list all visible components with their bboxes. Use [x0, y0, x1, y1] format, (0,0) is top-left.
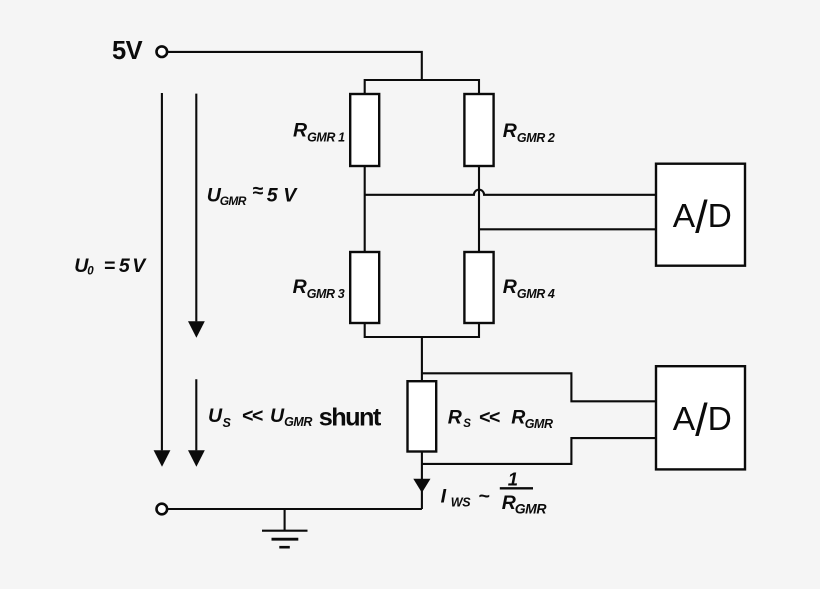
svg-text:GMR: GMR	[515, 501, 548, 517]
svg-text:A/D: A/D	[673, 191, 732, 242]
wire left bridge node to A/D 1 (with hop over right branch)	[365, 190, 656, 195]
svg-text:I: I	[441, 485, 447, 507]
wire shunt top tap to A/D 2	[422, 373, 656, 401]
arrow U_0 head	[154, 450, 171, 467]
svg-text:S: S	[463, 418, 471, 430]
fraction bar of I_WS label	[500, 487, 533, 489]
arrow U_GMR shaft	[195, 94, 197, 322]
ground bar 3	[279, 546, 290, 549]
svg-text:0: 0	[87, 265, 94, 277]
wire bridge top bus	[365, 80, 479, 95]
A/D converter box 2	[656, 366, 745, 469]
terminal (top, 5V input)	[157, 46, 168, 57]
svg-text:R: R	[502, 492, 516, 514]
svg-text:R: R	[448, 406, 462, 428]
svg-text:5: 5	[267, 185, 279, 207]
wire from 5V terminal to bridge top	[168, 52, 422, 80]
svg-text:≈: ≈	[252, 180, 263, 202]
svg-text:~: ~	[478, 485, 489, 507]
label R_S << R_GMR	[448, 406, 553, 430]
resistor R_GMR1	[350, 94, 379, 166]
svg-text:<<: <<	[242, 405, 263, 427]
svg-text:GMR: GMR	[525, 417, 553, 431]
ground rail wire	[168, 508, 422, 510]
wire shunt bottom to ground rail	[421, 452, 423, 510]
svg-text:A/D: A/D	[673, 394, 732, 445]
svg-text:S: S	[223, 416, 232, 430]
svg-text:GMR: GMR	[220, 194, 247, 208]
svg-text:U: U	[270, 405, 285, 427]
wire right bridge node to A/D 1	[479, 228, 656, 230]
terminal (bottom, return)	[157, 504, 168, 515]
arrow U_S head	[188, 450, 205, 467]
svg-text:1: 1	[508, 469, 518, 490]
resistor R_GMR4	[464, 252, 493, 323]
svg-text:V: V	[132, 255, 147, 277]
ground stub	[284, 509, 286, 531]
svg-text:=: =	[104, 255, 115, 277]
label I_WS ~ 1/R_GMR	[441, 469, 548, 517]
svg-text:U: U	[208, 405, 223, 427]
svg-text:WS: WS	[451, 496, 471, 510]
arrow U_GMR head	[188, 321, 205, 338]
label U_0 = 5 V	[74, 255, 147, 277]
arrow U_0 shaft	[161, 93, 163, 450]
wire R1 bottom to R3 top (left bridge node)	[364, 166, 366, 252]
resistor R_GMR3	[350, 252, 379, 323]
arrow U_S shaft	[195, 379, 197, 450]
svg-text:R: R	[511, 406, 525, 428]
wire shunt bottom tap to A/D 2	[422, 438, 656, 464]
svg-text:V: V	[283, 185, 298, 207]
resistor R_S shunt	[408, 381, 437, 451]
wire bridge center tap down to shunt	[421, 337, 423, 382]
wire R2 bottom to R4 top (right bridge node)	[478, 166, 480, 252]
A/D converter box 1	[656, 164, 745, 266]
svg-text:shunt: shunt	[319, 404, 382, 432]
svg-text:5: 5	[119, 255, 131, 277]
svg-text:<<: <<	[479, 406, 500, 428]
ground bar 2	[272, 538, 299, 541]
wire bridge bottom bus	[365, 323, 479, 338]
label U_S << U_GMR shunt	[208, 404, 382, 432]
ground bar 1	[262, 530, 308, 532]
svg-text:5V: 5V	[112, 37, 143, 65]
resistor R_GMR2	[464, 94, 493, 166]
label U_GMR ~ 5 V	[207, 180, 299, 208]
svg-text:GMR: GMR	[284, 415, 312, 429]
current arrow I_WS	[413, 479, 430, 493]
